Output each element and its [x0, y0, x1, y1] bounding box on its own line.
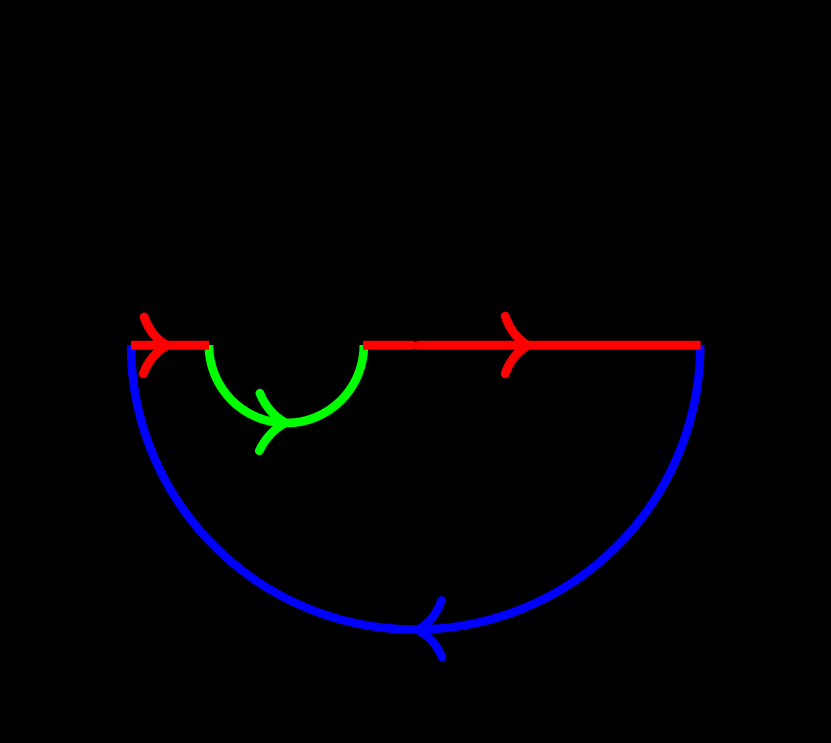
red axis segment left [131, 341, 209, 350]
green arrowhead (pointing right, bottom of small semicircle) [259, 393, 285, 451]
join notch artifact on red right segment (top) [413, 341, 419, 342]
blue large semicircle (contour closing in lower half-plane) [131, 345, 700, 629]
green small semicircle (indentation around pole) [209, 345, 364, 423]
red arrowhead on left segment (pointing right) [143, 317, 167, 374]
join notch artifact on red right segment (bottom) [413, 349, 419, 350]
red arrowhead on right segment (pointing right) [505, 316, 528, 374]
red axis segment right [363, 341, 701, 350]
blue arrowhead (pointing left, bottom of big semicircle) [418, 600, 443, 657]
